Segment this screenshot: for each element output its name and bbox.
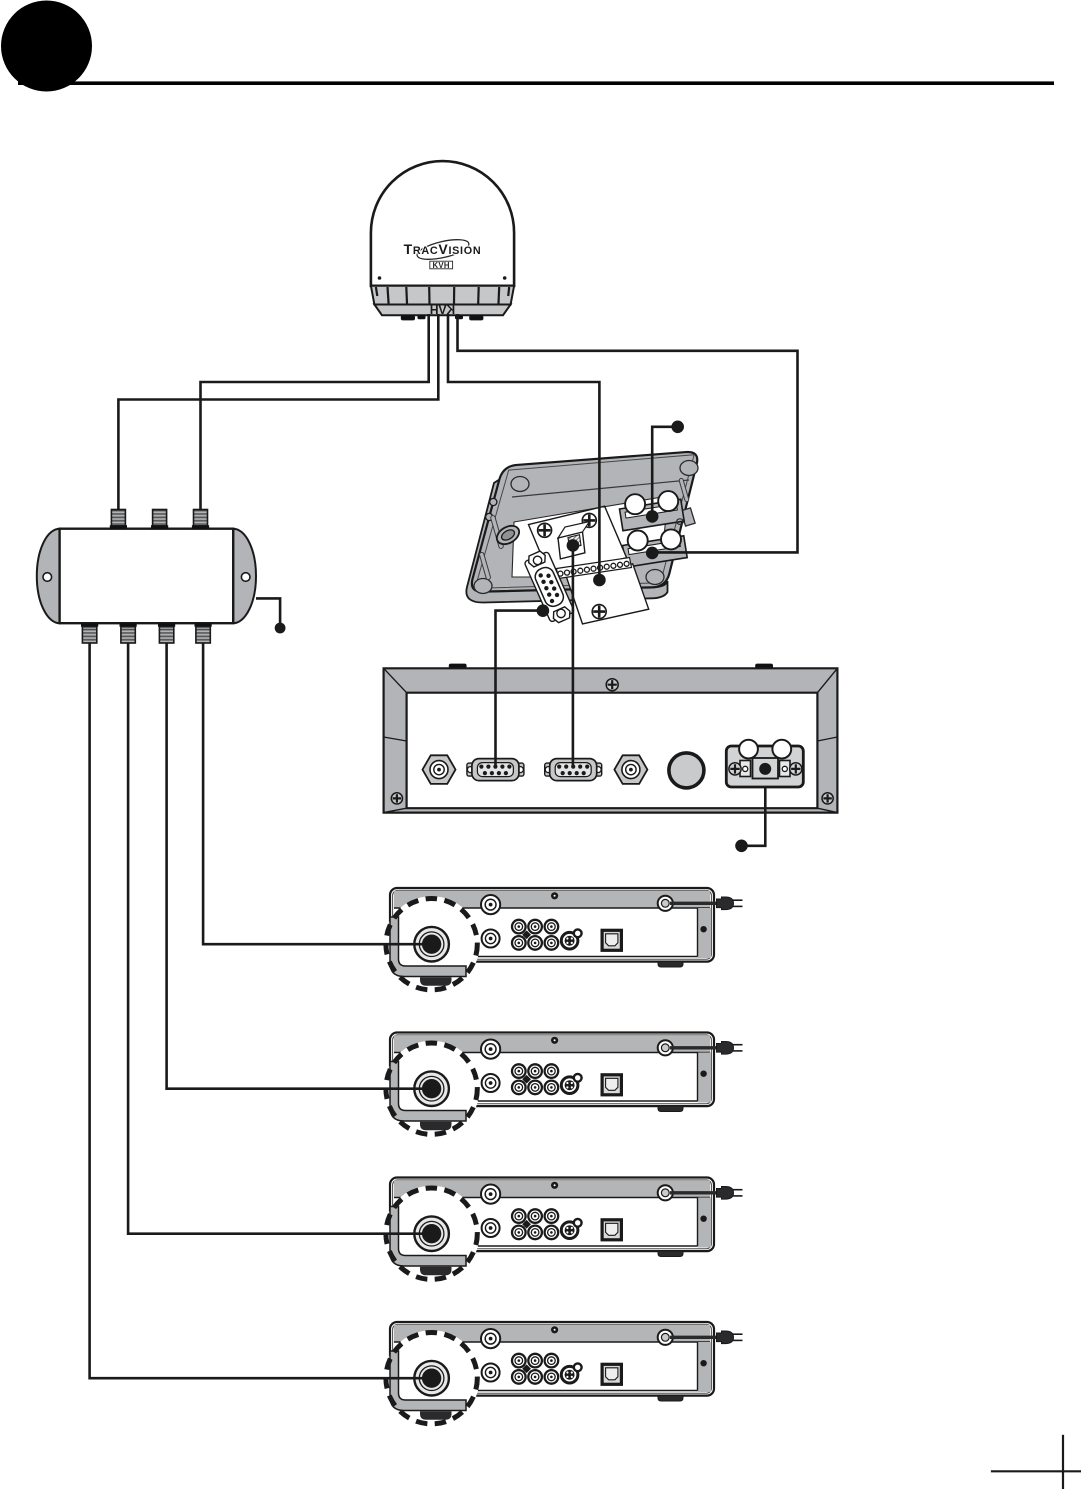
svg-text:KVH: KVH [433, 261, 450, 270]
svg-text:KVH: KVH [430, 303, 455, 317]
